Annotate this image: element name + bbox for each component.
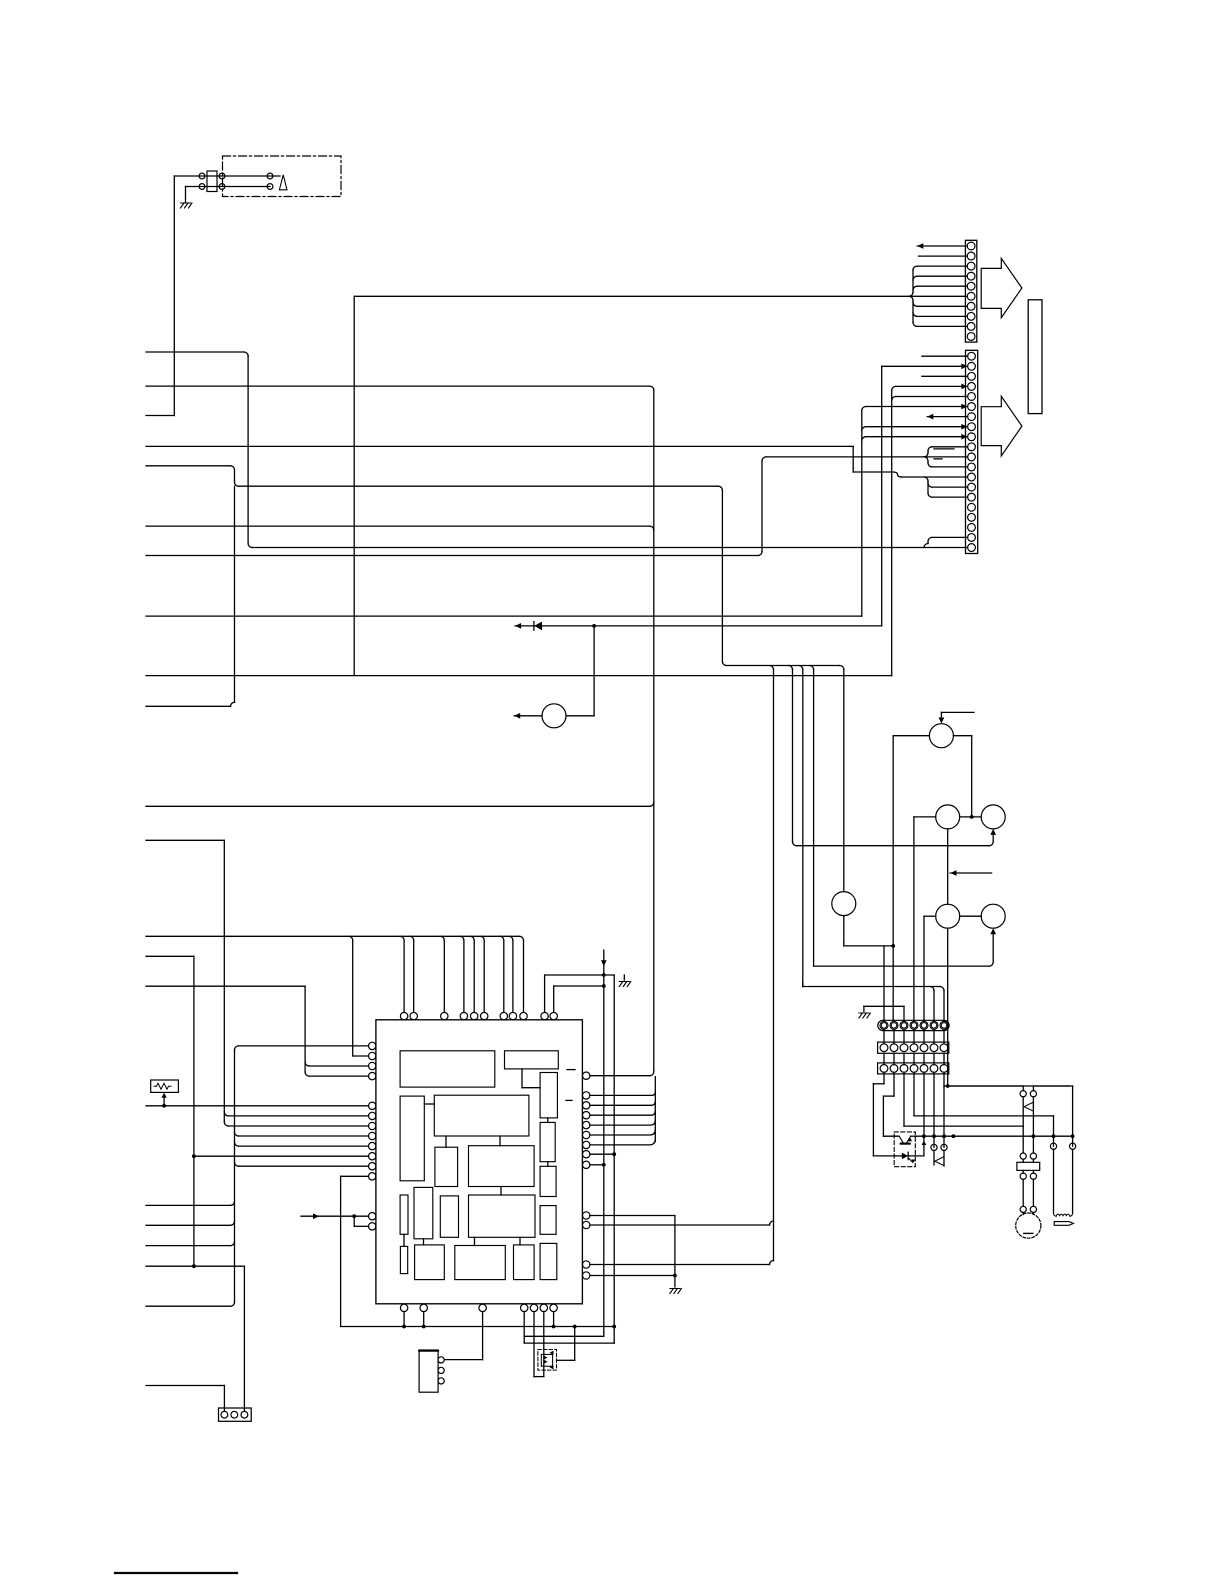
junction dot bottom bus	[612, 1325, 616, 1329]
diode D1 symbol	[534, 622, 542, 631]
wire Q2-Q3 link	[960, 816, 982, 818]
wire Q1 right lead	[953, 735, 971, 737]
wire IC pin10 line	[194, 1155, 369, 1157]
wire BP4 vertical	[523, 1312, 525, 1344]
jack J1 contact circles lower	[199, 184, 205, 190]
wire corner left y716	[566, 715, 594, 717]
transistor Q3	[981, 805, 1005, 829]
wire row8 horizontal	[866, 426, 968, 428]
wire vertical x914 down to pinA4	[913, 817, 915, 1021]
wire L5 jog down arc	[231, 466, 235, 470]
wire IC right pin12 lead	[590, 1264, 770, 1266]
wire photo emitter exit	[911, 1135, 916, 1137]
wire branch down to pinA1	[883, 946, 885, 1021]
wire vertical x862 to rows 6 8 9	[861, 411, 863, 617]
wire arc into trunk bottom	[231, 1302, 235, 1306]
connector CN3 socket body	[878, 1042, 949, 1053]
wire corner up x993 to Q5	[989, 962, 993, 966]
wire L3 horizontal y415	[146, 415, 174, 417]
U1 block CPU	[469, 1195, 536, 1237]
wire CN1 bundle split arcs	[909, 292, 913, 296]
U1 block reg	[435, 1147, 458, 1186]
wire vertical x614	[613, 975, 615, 1343]
junction dot coil line right	[1071, 1134, 1075, 1138]
junction dot y975	[602, 973, 606, 977]
wire row6 horizontal	[866, 406, 968, 408]
junction dot x194	[192, 1264, 196, 1268]
wire L1306 horizontal	[146, 1305, 231, 1307]
wire y986 harness horizontal	[802, 983, 804, 987]
wire arc to row6	[862, 407, 866, 411]
U1 block port left	[400, 1096, 424, 1181]
arrow into CN2 row9	[961, 434, 967, 440]
ground near IC top right	[619, 982, 631, 987]
resonator X1 inner	[541, 1354, 552, 1366]
connector CN1 pins	[967, 242, 975, 250]
wire vertical x843 to Q6	[843, 670, 845, 892]
wire corner right y665	[722, 662, 726, 666]
junction dot pin13-pin14 branch	[352, 1214, 356, 1218]
reset IC U2 body	[419, 1350, 438, 1392]
wire arc to IC right pin11 line	[770, 1221, 774, 1225]
wire BP6 into resonator	[543, 1312, 545, 1350]
diode D1 line y626	[515, 625, 882, 627]
wire bundle split rows10-12	[924, 453, 928, 457]
wire LED anode inside	[894, 1155, 902, 1157]
wire CN3 mating stubs	[883, 1030, 885, 1044]
wire vertical x352 to IC pin2	[352, 940, 354, 1056]
connector CN3 plug outline	[878, 1020, 949, 1030]
wire vertical x604 with down arrow	[603, 950, 605, 1332]
wire y975 horizontal	[545, 974, 615, 976]
wire bus end into pin9	[520, 936, 524, 940]
wire row12 horizontal	[932, 466, 968, 468]
wire IC pin7 lead	[228, 1125, 368, 1127]
wire trunk arc to IC pin11 line	[235, 1162, 239, 1166]
coil L1 winding	[1054, 1213, 1073, 1217]
wire L8 horizontal y616	[146, 615, 862, 617]
junction dot S1 left	[932, 1134, 936, 1138]
wire row9 horizontal	[866, 436, 968, 438]
block arrow to CN1	[981, 258, 1022, 317]
wire CN1 row7 branch	[917, 305, 967, 307]
ground stub y975	[623, 975, 625, 980]
U1 block ALU	[469, 1146, 535, 1187]
arrow up LED cathode junction	[922, 1141, 927, 1145]
wire arc to row5	[892, 397, 896, 401]
wire L6 merge arc into x654	[650, 526, 654, 530]
wire jack ground stub	[185, 187, 187, 203]
wire trunk arc to IC pin8 line	[235, 1132, 239, 1136]
connector CN3 plug pins	[880, 1021, 888, 1029]
jack J1 ring contact wire	[186, 186, 271, 188]
wire L1 corner right	[248, 544, 252, 548]
optocoupler phototransistor	[899, 1136, 910, 1143]
wire IC pin9 line	[239, 1145, 369, 1147]
U1 block b16	[415, 1245, 445, 1280]
wire CN5 pin3 line y1126	[903, 1072, 905, 1126]
wire L4 corner down x853	[852, 446, 854, 468]
U1 block timer3	[540, 1166, 556, 1196]
wire IC right pin11 lead	[590, 1224, 770, 1226]
wire vertical x924 down to pinA5	[923, 916, 925, 1020]
wire L1 horizontal y352	[146, 351, 244, 353]
optocoupler LED	[902, 1153, 908, 1160]
wires bus to U1 top pins	[400, 936, 404, 940]
filter FL1 zigzag symbol	[154, 1083, 171, 1089]
wire L936 bus horizontal y936	[146, 935, 520, 937]
jack J1 contact circles upper	[199, 173, 205, 179]
wire IC pin6 lead	[228, 1115, 368, 1117]
IC U1 right pins	[583, 1072, 590, 1079]
junction dot IC right pin8	[612, 1152, 616, 1156]
switch S2 terminals	[1020, 1091, 1026, 1097]
wire arrow into filter	[163, 1097, 165, 1106]
transistor Q2	[936, 805, 960, 829]
U1 dash mark right2	[566, 1099, 572, 1101]
wire corner down x722	[718, 486, 722, 490]
transistor Q6	[832, 892, 856, 916]
wire coil leads	[1053, 1149, 1055, 1213]
U1 block RAM	[434, 1095, 529, 1136]
wire y1086 horizontal	[944, 1085, 1069, 1087]
wire CN5 pin4 line y1116	[913, 1072, 915, 1116]
motor M1	[1016, 1213, 1041, 1238]
wire vertical x305	[304, 986, 306, 1072]
reset IC U2 pins	[438, 1357, 444, 1363]
wire bundle vertical x655	[654, 1077, 656, 1142]
wire resonator output	[557, 1359, 571, 1361]
junction dot x953	[952, 1134, 956, 1138]
wire L2 horizontal y386	[146, 385, 650, 387]
wire BP1 stub	[403, 1312, 405, 1327]
wire L1266 horizontal	[146, 1265, 240, 1267]
switch S1 terminals	[931, 1144, 937, 1150]
wire test point left stub with arrow	[514, 715, 542, 717]
wire vertical x354 pin14	[353, 1216, 355, 1226]
wire row13 horizontal	[901, 476, 968, 478]
wire row5 horizontal	[896, 396, 968, 398]
ground jack	[181, 203, 193, 208]
wire photo line y1136 long	[915, 1135, 1072, 1137]
wire IC top pin10 vertical up	[544, 975, 546, 1012]
wire bundle vertical x792	[792, 670, 794, 842]
U1 block b19	[540, 1243, 557, 1279]
wire bundle vertical x773	[773, 670, 775, 1261]
switch S1 actuator triangle	[933, 1151, 935, 1165]
wire BP3 to reset IC	[482, 1312, 484, 1360]
arrow up into Q5	[990, 928, 996, 934]
wire motor leads	[1022, 1179, 1024, 1206]
wire y1343 horizontal	[524, 1342, 614, 1344]
connector pins motor top	[1020, 1153, 1026, 1159]
wire Q6 bottom horizontal to x893	[844, 945, 893, 947]
junction dot y986	[602, 984, 606, 988]
wire arc to row9	[862, 437, 866, 441]
wire trunk branch arc to L705	[231, 702, 235, 706]
wire vertical x594 to test point	[593, 626, 595, 716]
junction dot x1053 coil line	[1052, 1134, 1056, 1138]
wire IC right pin9 lead	[590, 1164, 604, 1166]
wire arc to IC pin7 line	[224, 1122, 228, 1126]
wire row4 horizontal	[896, 385, 968, 387]
wire CN5 pin7 down	[943, 1072, 945, 1147]
wire vertical x675 to ground	[674, 1216, 676, 1288]
wire CN2 row1 stub	[922, 355, 968, 357]
wire vertical x194	[193, 956, 195, 1266]
wire y486 horizontal to x722	[239, 485, 719, 487]
wire L1 corner down	[244, 352, 248, 356]
wire IC pin14 lead	[354, 1225, 368, 1227]
wire y986 horizontal	[554, 985, 604, 987]
wire IC pin4 lead	[309, 1075, 368, 1077]
wire IC pin8 line	[239, 1135, 369, 1137]
connector CN2 pins	[968, 352, 976, 360]
wire CN2 row3 stub	[922, 375, 968, 377]
wire IC pin5 line from left edge	[146, 1105, 369, 1107]
jack J1 dash-dot enclosure	[223, 156, 342, 197]
wire arc to IC pin6 line	[224, 1112, 228, 1116]
connector CN4 pins	[221, 1411, 228, 1418]
transistor Q5	[981, 904, 1005, 928]
optocoupler LED emission arrow	[909, 1159, 913, 1163]
wire L4 jog arc down	[893, 472, 902, 477]
wire L5 jog arc right	[235, 482, 239, 486]
wire arc to IC pin4 line	[305, 1072, 309, 1076]
transistor Q1	[929, 724, 953, 748]
U1 block b17	[455, 1246, 506, 1280]
wire L1225 horizontal	[146, 1224, 231, 1226]
wire stub with left arrow y873	[950, 872, 991, 874]
junction dot resonator branch	[573, 1325, 577, 1329]
wire arc to row4	[892, 386, 896, 390]
U1 block timer1	[540, 1073, 557, 1118]
wire harness trunk upper vertical x234	[234, 486, 236, 702]
junction dot pin10 line	[192, 1154, 196, 1158]
wire bus rip to x352	[349, 936, 353, 940]
wire vertical x762	[761, 461, 763, 552]
wires U1 right pins2-7 bundle	[590, 1092, 655, 1096]
wire Q2 left lead	[914, 816, 936, 818]
arrow into CN2 row6	[961, 404, 967, 410]
U1 dash mark right1	[567, 1069, 575, 1071]
wire CN5 pin6 down to switch S1	[933, 1072, 935, 1147]
label dash row11 split	[934, 458, 942, 460]
wire CN1 row2 stub	[919, 255, 968, 257]
wire CN5 pin2 to photo collector	[893, 1072, 895, 1096]
wire Q2 bottom to Q4	[947, 829, 949, 904]
wire CN1 bundle feed y296	[354, 295, 909, 297]
wire net row20 horizontal y547	[252, 547, 968, 549]
wire harness trunk lower vertical x234	[234, 1050, 236, 1302]
wire corner down to CN4 pin1	[220, 1385, 224, 1387]
wire CN3-CN5 stubs	[883, 1053, 885, 1064]
wire y966 horizontal to Q5	[814, 965, 990, 967]
filter FL1 box	[151, 1080, 179, 1092]
wire Q4-Q5 link	[960, 915, 982, 917]
wire bottom bus y1326	[341, 1326, 615, 1328]
wire bundle vertical x813	[813, 670, 815, 967]
wire arc to IC pin3 line	[305, 1062, 309, 1066]
wire L1 vertical x248	[247, 356, 249, 544]
junction dot diode line	[592, 624, 596, 628]
connector pins coil top	[1050, 1143, 1056, 1149]
U1 block OSC	[505, 1051, 559, 1069]
junction dot pin13 line	[673, 1274, 677, 1278]
wire IC right pin13 lead	[590, 1275, 675, 1277]
wire IC pin13 arrow lead	[301, 1215, 369, 1217]
jack J1 connector body	[207, 171, 217, 192]
wire IC top pin11 vertical up	[553, 986, 555, 1012]
wire L4 corner right y472	[853, 471, 893, 473]
connector CN4 body	[219, 1408, 252, 1421]
wire L1205 horizontal	[146, 1204, 231, 1206]
ground below pin13 line	[670, 1289, 682, 1294]
wire vertical x893 down to pinA2	[892, 736, 894, 1021]
connector pins motor	[1020, 1206, 1026, 1212]
connector CN1 body	[965, 240, 976, 342]
wire row10 horizontal	[932, 446, 968, 448]
wire y845 horizontal to T3	[797, 845, 990, 847]
wire CN2 row7 stub with arrow	[927, 416, 967, 418]
wire IC pin3 lead	[309, 1065, 368, 1067]
wire arc to row8	[862, 427, 866, 431]
wire Q4 bottom vertical	[947, 928, 949, 1086]
transistor Q4	[936, 904, 960, 928]
connector CN5 body	[878, 1063, 949, 1074]
test point circle TP1	[542, 704, 566, 728]
wire IC pin11 line	[239, 1165, 369, 1167]
wire LED cathode to node	[908, 1155, 924, 1157]
IC U1 body	[376, 1020, 583, 1304]
wire harness end corner down x843	[839, 665, 843, 669]
wire L5 jog vertical	[234, 470, 236, 482]
U1 internal links	[521, 1069, 523, 1088]
wire IC pin12 lead	[341, 1175, 369, 1177]
wire corner down x244	[240, 1265, 244, 1267]
wire L4 horizontal y446	[146, 445, 849, 447]
wire L840 horizontal y840	[146, 839, 224, 841]
U1 block col1	[400, 1195, 408, 1234]
wire bundle split rows14-15	[924, 477, 928, 481]
wire corner right y457	[762, 457, 766, 461]
U1 block ROM	[400, 1051, 495, 1087]
IC U1 bottom pins	[400, 1304, 407, 1311]
wire vertical x972	[971, 736, 973, 817]
wire CN1 row4 branch	[917, 275, 967, 277]
wire BP2 stub	[423, 1312, 425, 1327]
wire CN1 row9 branch	[917, 325, 967, 327]
wire harness bus y665 horizontal	[726, 665, 839, 667]
junction dot S1 right	[942, 1134, 946, 1138]
wire Q4 left lead	[924, 915, 936, 917]
wire branch to row19 arc	[924, 544, 928, 548]
wire bundle vertical x802	[802, 670, 804, 987]
arrow into CN2 row8	[961, 424, 967, 430]
page footer bar	[115, 1572, 237, 1574]
wire L806 horizontal y806	[146, 805, 650, 807]
wire L675 horizontal y675	[146, 675, 892, 677]
arrow into CN2 row4	[961, 384, 967, 390]
wire L7 corner up x762	[758, 552, 762, 556]
wire IC right pin10 lead	[590, 1215, 675, 1217]
junction dot crystal branch	[162, 1104, 166, 1108]
U1 block b15	[400, 1246, 407, 1273]
wire L7 horizontal y555	[146, 555, 758, 557]
wire corner down to pinA7	[940, 987, 944, 991]
junction dot IC right pin9	[602, 1163, 606, 1167]
U1 block timer2	[540, 1122, 555, 1161]
arrow into CN2 row2	[961, 363, 967, 369]
wire row11 horizontal	[766, 456, 968, 458]
IC U1 left pins	[369, 1042, 376, 1049]
wire Q1 top arrow feed	[941, 711, 974, 713]
wire trunk arc to IC pin1 line	[235, 1046, 239, 1050]
wire L705 horizontal	[146, 705, 231, 707]
wire vertical x340 to bottom bus	[340, 1176, 342, 1326]
wire L1245 horizontal	[146, 1245, 231, 1247]
wire vertical x224	[223, 840, 225, 1122]
U1 block col2	[414, 1187, 433, 1238]
wire arc right y845	[793, 842, 797, 846]
wire L2 corner down	[650, 386, 654, 390]
wire L6 horizontal y526	[146, 525, 650, 527]
wire IC right pin8 lead	[590, 1153, 614, 1155]
wire S2 right top jog	[1032, 1086, 1034, 1091]
wire vertical x892 to rows 4 5	[891, 390, 893, 675]
wire corner up x993	[989, 842, 993, 846]
U1 block io1	[540, 1206, 556, 1235]
optocoupler PC1 dashed box	[894, 1132, 915, 1167]
wire arc bottom to IC right pin12 line	[770, 1261, 774, 1265]
wire corner left y1336	[603, 1332, 605, 1336]
wire CN5 pin5 down to LED cathode node	[923, 1072, 925, 1136]
arrow up into Q3	[990, 829, 996, 835]
U1 block b18	[514, 1245, 535, 1280]
wire L2 corner left to IC pin	[650, 1072, 654, 1076]
IC U1 top pins	[400, 1012, 407, 1019]
wire trunk arc to IC pin9 line	[235, 1142, 239, 1146]
wire jack left lead down	[173, 176, 175, 416]
junction dot Q6 line	[891, 944, 895, 948]
wire CN1 row8 branch	[917, 315, 967, 317]
wire ground line rowA	[864, 1005, 904, 1007]
wire row15 horizontal	[932, 496, 968, 498]
thermostat body capsule	[1054, 1222, 1073, 1226]
wire CN5 pin1 to LED anode	[883, 1072, 885, 1084]
wire rip arc down to pinA6	[930, 987, 934, 991]
wire BP5 jog to resonator	[533, 1312, 535, 1377]
connector CN2 body	[966, 350, 978, 553]
wire Q6 bottom	[843, 916, 845, 942]
wire row19 horizontal	[932, 536, 968, 538]
junction dot LED cathode node	[922, 1134, 926, 1138]
arrow left end diode line	[515, 623, 521, 629]
wire row14 horizontal	[932, 486, 968, 488]
wire L5 horizontal y466	[146, 465, 231, 467]
wire CN1 row1 stub with arrow	[917, 245, 967, 247]
jack J1 plug tip triangle	[279, 175, 287, 190]
ground stub rowA	[863, 1006, 865, 1011]
wire corner down x1072 from switch line	[1069, 1085, 1073, 1087]
motor M1 polarity bar	[1024, 1232, 1033, 1234]
wire vertical x354 from CN1 bundle	[353, 296, 355, 675]
wire CN1 row3 branch	[917, 265, 967, 267]
wire BP7 stub	[553, 1312, 555, 1327]
connector CN3 socket pins	[880, 1044, 888, 1052]
ground rowA	[859, 1013, 871, 1018]
block arrow to CN2	[981, 396, 1022, 456]
